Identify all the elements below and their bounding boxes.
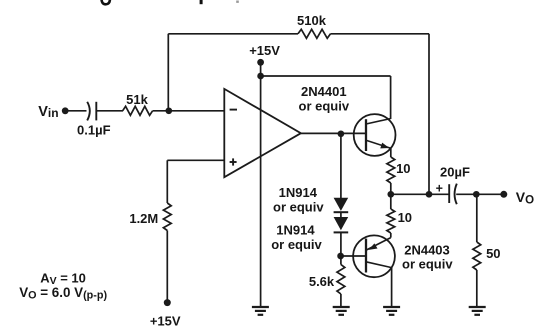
svg-text:2N4403: 2N4403 [404, 243, 450, 258]
svg-text:or equiv: or equiv [402, 256, 453, 271]
svg-text:+15V: +15V [249, 43, 280, 58]
svg-text:VO: VO [516, 189, 534, 207]
svg-text:Vin: Vin [38, 104, 58, 120]
svg-text:or equiv: or equiv [271, 237, 322, 252]
svg-text:50: 50 [486, 246, 500, 261]
svg-text:+: + [436, 182, 443, 196]
svg-text:20µF: 20µF [440, 164, 470, 179]
svg-text:or equiv: or equiv [299, 98, 350, 113]
svg-text:VO = 6.0 V(p-p): VO = 6.0 V(p-p) [19, 285, 107, 302]
svg-text:10: 10 [396, 161, 410, 176]
svg-text:10: 10 [398, 210, 412, 225]
svg-text:510k: 510k [297, 13, 327, 28]
svg-text:+15V: +15V [150, 313, 181, 328]
svg-text:1N914: 1N914 [276, 223, 315, 238]
svg-text:1N914: 1N914 [279, 185, 318, 200]
svg-text:5.6k: 5.6k [309, 274, 335, 289]
svg-text:2N4401: 2N4401 [301, 84, 347, 99]
svg-text:0.1µF: 0.1µF [77, 123, 111, 138]
svg-text:1.2M: 1.2M [129, 211, 158, 226]
svg-text:or equiv: or equiv [273, 200, 324, 215]
svg-text:51k: 51k [126, 92, 148, 107]
